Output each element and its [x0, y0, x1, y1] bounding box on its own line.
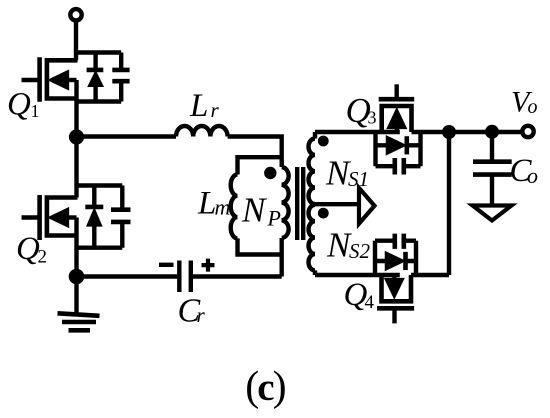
wire Lm bottom — [238, 238, 282, 254]
channel bracket — [47, 198, 78, 236]
winding NS1 — [309, 132, 316, 204]
capacitor Co — [473, 132, 512, 205]
arrow tail — [392, 275, 396, 279]
node B junction dot — [69, 269, 85, 285]
label NP — [241, 191, 281, 231]
body diode D1 bar — [87, 68, 104, 73]
wire Lr to primary — [228, 137, 282, 168]
gate stub — [392, 308, 396, 323]
capacitor leads — [120, 186, 124, 248]
gate stub — [395, 84, 399, 99]
inductor Lr — [176, 126, 228, 137]
channel bracket — [382, 275, 412, 301]
svg-text:S2: S2 — [349, 239, 371, 263]
wire node A to Lr — [77, 134, 177, 138]
plus sign — [202, 259, 215, 272]
gate lead — [22, 78, 40, 82]
left rail — [373, 241, 377, 275]
Co stem — [490, 175, 494, 204]
label Q3 — [346, 91, 377, 130]
body diode D4 leads — [375, 259, 416, 263]
winding NS2 — [309, 205, 316, 275]
svg-text:L: L — [189, 88, 208, 124]
svg-text:o: o — [528, 96, 538, 118]
wire input to Q1 drain — [74, 21, 78, 61]
body diode D4 bar — [403, 252, 408, 270]
input terminal — [70, 9, 81, 20]
svg-text:Q: Q — [16, 231, 40, 267]
channel bracket — [382, 106, 412, 132]
wire node C to Q4 — [447, 132, 451, 275]
gate lead — [22, 215, 40, 219]
node A junction dot — [69, 129, 84, 144]
label NS2 — [326, 226, 371, 265]
left rail — [373, 132, 377, 166]
label NS1 — [325, 154, 369, 193]
arrow tail — [68, 78, 77, 82]
capacitor leads — [375, 238, 416, 242]
gate bar — [377, 306, 414, 311]
svg-text:(c): (c) — [245, 364, 285, 410]
label Lm — [197, 186, 230, 222]
svg-text:P: P — [267, 206, 281, 231]
svg-text:m: m — [215, 195, 231, 220]
wire Cr to transformer — [193, 274, 282, 278]
wire NS2 to Q4 — [315, 273, 400, 277]
drain lead — [74, 137, 78, 198]
transistor Q1 — [22, 53, 130, 138]
svg-text:2: 2 — [38, 247, 48, 268]
transistor Q3 — [376, 84, 450, 174]
capacitor plates — [112, 70, 129, 81]
source lead — [74, 80, 78, 137]
gate bar — [37, 195, 42, 240]
svg-text:1: 1 — [31, 101, 40, 121]
body diode D2 bar — [85, 205, 103, 210]
svg-text:L: L — [197, 186, 216, 222]
bottom rail — [77, 245, 123, 249]
body diode D3 leads — [376, 143, 421, 147]
gate bar — [379, 97, 415, 102]
arrow — [49, 71, 69, 90]
ground — [58, 277, 100, 331]
arrow tail — [68, 215, 77, 219]
body diode D3 triangle — [387, 136, 406, 154]
polarity dot NP — [264, 167, 276, 179]
bottom rail — [77, 99, 122, 103]
label Q1 — [7, 87, 40, 123]
svg-text:N: N — [241, 191, 267, 230]
svg-text:Q: Q — [7, 87, 31, 123]
channel bracket — [47, 60, 78, 98]
arrow — [49, 208, 69, 227]
capacitor leads — [119, 53, 123, 102]
wire NS1 to Q3 — [315, 130, 400, 134]
body diode D3 bar — [404, 136, 409, 154]
caption (c) — [245, 364, 285, 410]
capacitor Cr — [179, 261, 191, 293]
capacitor plates — [395, 234, 404, 249]
label Q4 — [344, 277, 375, 313]
svg-text:3: 3 — [368, 108, 377, 128]
capacitor plates — [395, 158, 404, 175]
wire primary top tap — [238, 157, 282, 174]
top rail — [77, 183, 123, 187]
output terminal Vo — [522, 126, 533, 137]
right rail — [414, 241, 418, 275]
body diode D4 triangle — [386, 252, 405, 270]
transformer core — [297, 167, 303, 240]
body diode D1 leads — [93, 53, 97, 102]
body diode D2 triangle — [87, 209, 101, 226]
drain wire — [412, 130, 450, 134]
label Cr — [178, 293, 206, 330]
winding NP — [282, 167, 289, 238]
source lead — [74, 218, 78, 277]
top rail — [77, 50, 122, 54]
label Lr — [189, 88, 220, 124]
capacitor leads — [376, 164, 421, 168]
center tap arrow — [359, 188, 375, 224]
right rail — [418, 132, 422, 166]
transistor Q2 — [22, 137, 131, 277]
body diode D2 leads — [92, 186, 96, 248]
wire NP bottom — [280, 238, 284, 277]
capacitor plates — [111, 210, 131, 222]
arrow — [387, 109, 406, 129]
node C junction dot — [442, 125, 456, 139]
inductor Lm — [231, 175, 238, 239]
Co lead top — [490, 132, 494, 162]
polarity dot NS1 — [318, 136, 329, 147]
gate bar — [37, 57, 42, 102]
label Co — [510, 153, 539, 189]
svg-text:4: 4 — [365, 292, 375, 313]
svg-text:r: r — [197, 303, 206, 327]
arrow tail — [395, 128, 399, 132]
transistor Q4 — [375, 234, 449, 324]
Co plates — [473, 162, 512, 175]
node D junction dot — [485, 125, 499, 139]
minus sign — [159, 263, 174, 267]
polarity dot NS2 — [318, 208, 329, 219]
label Q2 — [16, 231, 47, 268]
output rail — [449, 130, 522, 134]
drain wire — [411, 273, 449, 277]
svg-text:r: r — [211, 98, 220, 122]
svg-text:o: o — [527, 163, 538, 188]
body diode D1 triangle — [88, 72, 102, 87]
center tap wire — [315, 202, 358, 206]
wire node B to Cr — [77, 274, 178, 278]
arrow — [385, 279, 404, 298]
output ground triangle — [473, 206, 512, 221]
label Vo — [511, 86, 538, 119]
